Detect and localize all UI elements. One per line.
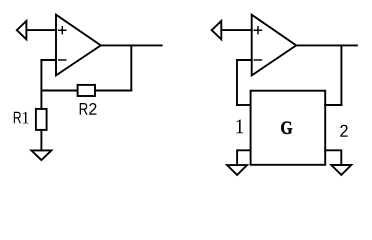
wire: R1 to ground [40, 130, 42, 151]
input port (right circuit) [212, 21, 222, 40]
op-amp - input marker [254, 59, 261, 61]
wire: op-amp - input horizontal [41, 59, 56, 61]
input port (left circuit) [17, 21, 27, 40]
wire: input port to op-amp + input [221, 29, 251, 31]
wire: feedback branch down from output [130, 45, 132, 90]
wire: feedback into G box right side [325, 104, 341, 106]
two-port network G (box) [251, 91, 326, 165]
wire: op-amp - input horizontal [237, 59, 252, 61]
label R1 [14, 112, 21, 123]
op-amp (left circuit) [56, 15, 101, 76]
op-amp - input marker [59, 59, 66, 61]
wire: feedback to R2 right terminal [95, 90, 131, 92]
wire: G pin 1 to ground [237, 150, 251, 165]
wire: op-amp output [296, 44, 357, 46]
wire: op-amp output [101, 44, 162, 46]
wire: feedback branch down from output [340, 45, 342, 105]
wire: inverting node vertical down to R1 [40, 60, 42, 109]
wire: into G box left side [237, 104, 251, 106]
wire: input port to op-amp + input [26, 29, 56, 31]
wire: R2 left terminal to inverting node [41, 90, 77, 92]
label G (network name) [281, 122, 292, 134]
resistor R1 [36, 109, 47, 130]
ground (pin 1) [227, 165, 247, 175]
label pin 1 [236, 120, 243, 134]
resistor R2 [78, 85, 95, 96]
ground (left circuit) [31, 150, 51, 160]
label pin 2 [340, 125, 347, 137]
label R2 [80, 103, 88, 115]
ground (pin 2) [331, 165, 351, 175]
wire: inverting input down [236, 60, 238, 105]
wire: G pin 2 to ground [325, 150, 341, 165]
op-amp + input marker [254, 27, 261, 34]
op-amp + input marker [59, 27, 66, 34]
op-amp (right circuit) [252, 15, 297, 76]
